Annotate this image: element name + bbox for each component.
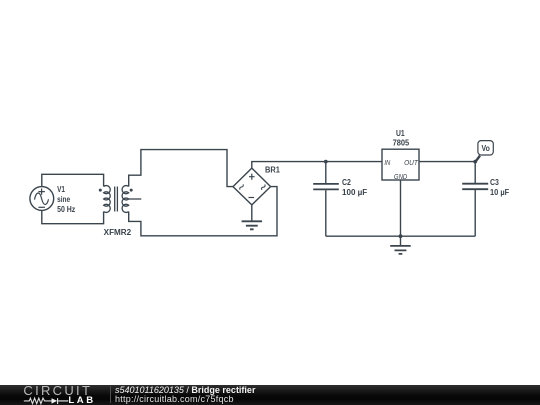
bridge minus sign [249,197,255,199]
svg-text:U1: U1 [396,129,405,138]
junction node at U1 GND rail [399,234,403,238]
junction node at Vo/C3 [473,160,477,164]
bridge rectifier BR1 diamond [233,168,271,205]
ground under U1 [400,236,402,246]
svg-text:50 Hz: 50 Hz [57,205,75,214]
logo resistor + diode glyph [0,385,115,405]
transformer core [115,187,118,212]
transformer XFMR2 primary winding [104,186,111,213]
regulator U1 box [382,149,419,180]
bridge left AC tilde [239,184,244,189]
U1 GND pin wire [400,180,402,236]
wire secondary bottom to bridge right vertex [129,187,277,236]
Vo flag box [478,141,493,155]
svg-text:sine: sine [57,195,70,204]
svg-text:OUT: OUT [404,158,419,167]
wire bridge bottom to ground [251,205,253,221]
wire U1 OUT rail [419,161,475,163]
Vo flag pointer [475,156,480,162]
capacitor C3 [462,162,488,237]
svg-text:10 µF: 10 µF [490,188,509,197]
wire V1 bottom rail [42,210,104,223]
wire secondary top to bridge [129,150,233,187]
svg-text:V1: V1 [57,185,65,194]
wire V1 top rail [42,174,104,186]
transformer secondary phase dot [130,189,133,192]
bridge plus sign [249,174,255,180]
wire bridge top to U1 IN rail [252,162,382,169]
bridge right AC tilde [261,185,266,190]
ground under bridge [242,221,262,229]
voltage source V1 [30,187,54,211]
transformer primary phase dot [99,189,102,192]
ground rail C2 to C3 [326,235,475,237]
svg-text:100 µF: 100 µF [342,188,367,197]
svg-text:C2: C2 [342,178,351,187]
transformer secondary winding [122,186,129,213]
transformer secondary center tap stub [129,198,142,200]
capacitor C2 [313,162,339,237]
svg-text:IN: IN [384,158,390,167]
footer bar [0,385,540,405]
svg-text:XFMR2: XFMR2 [104,228,132,237]
svg-text:7805: 7805 [393,139,410,148]
svg-text:GND: GND [394,172,408,181]
svg-text:C3: C3 [490,178,499,187]
svg-text:Vo: Vo [482,144,490,153]
CircuitLab logo wordmark [23,383,92,398]
svg-text:BR1: BR1 [265,165,280,174]
junction node at C2 top [324,160,328,164]
